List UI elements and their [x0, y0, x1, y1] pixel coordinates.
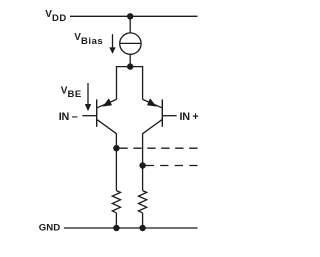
wire VDD rail [70, 15, 198, 17]
wire current source to tail node [129, 54, 131, 66]
svg-text:IN +: IN + [180, 111, 199, 123]
svg-text:VBE: VBE [61, 85, 82, 100]
wire right resistor to GND [142, 213, 144, 228]
wire GND rail [64, 227, 198, 229]
wire dashed output left collector [119, 147, 197, 149]
wire left resistor to GND [115, 213, 117, 228]
resistor R2 (right load) [139, 191, 147, 213]
wire left collector [115, 134, 117, 191]
transistor Q1 (left PNP) [82, 98, 116, 134]
arrow VBE base voltage [85, 83, 91, 111]
wire from VDD rail to current source [129, 16, 131, 33]
node right collector output dot [139, 162, 145, 168]
node right resistor GND dot [139, 225, 145, 231]
node tail junction dot [127, 63, 133, 69]
node left collector output dot [113, 145, 119, 151]
current source I1 [120, 33, 141, 54]
wire dashed output right collector [146, 165, 198, 167]
svg-text:GND: GND [39, 222, 60, 233]
svg-text:IN –: IN – [59, 111, 78, 123]
node left resistor GND dot [113, 225, 119, 231]
svg-text:VBias: VBias [74, 32, 103, 47]
node junction dot on VDD rail [127, 13, 133, 19]
svg-text:VDD: VDD [45, 9, 67, 24]
arrow VBias current direction [109, 34, 115, 54]
wire emitter header [117, 67, 143, 100]
wire right collector [142, 134, 144, 191]
resistor R1 (left load) [112, 191, 120, 213]
transistor Q2 (right PNP) [143, 98, 177, 134]
